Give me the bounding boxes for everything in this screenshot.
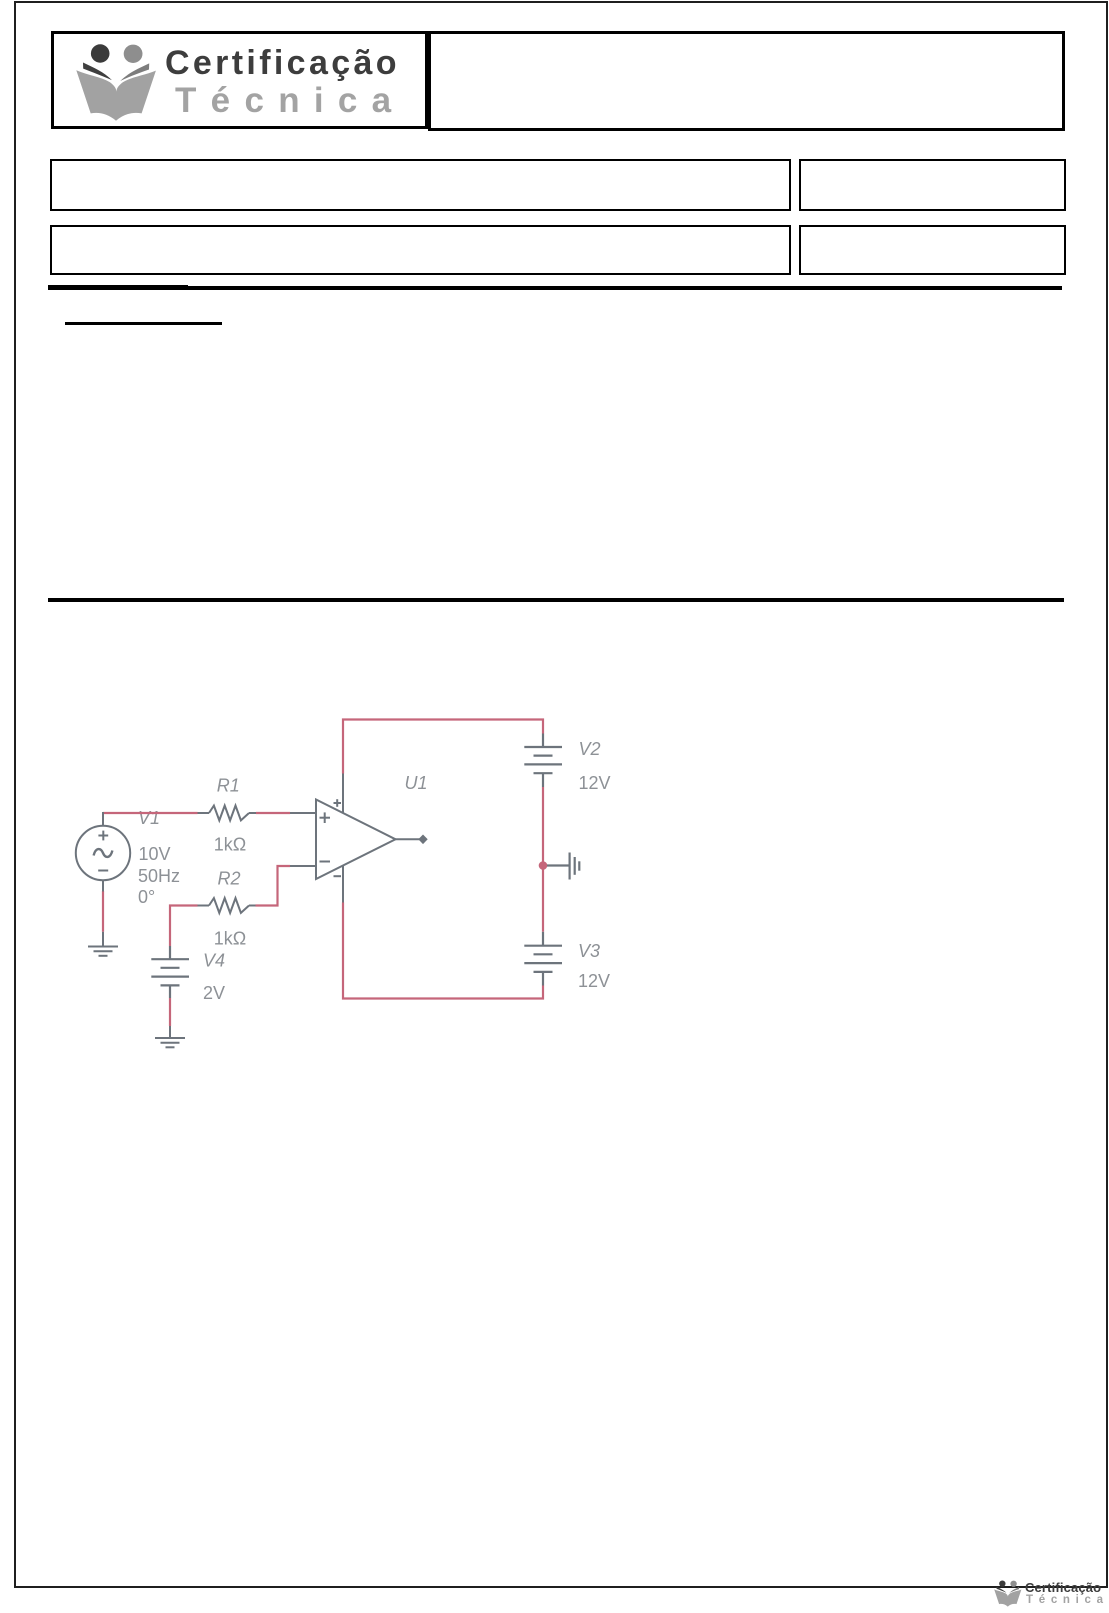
svg-text:R1: R1: [217, 776, 240, 796]
header right box: [428, 31, 1065, 131]
svg-text:V3: V3: [578, 941, 600, 961]
ground (sideways) at junction: [570, 853, 580, 880]
svg-text:50Hz: 50Hz: [138, 866, 180, 886]
wire: V1 bottom to ground: [102, 891, 104, 932]
battery V3: [524, 932, 562, 986]
thick rule 1: [48, 286, 1062, 291]
svg-text:V1: V1: [138, 808, 160, 828]
row2 right box: [799, 225, 1066, 275]
voltage source V1: [76, 812, 130, 892]
labels: [138, 739, 611, 1003]
footer logo text: [1025, 1581, 1101, 1594]
header logo mark: [70, 40, 162, 126]
wire: R2 to op-amp inverting input: [256, 866, 291, 906]
svg-text:V2: V2: [579, 739, 601, 759]
svg-text:0°: 0°: [138, 887, 155, 907]
row1 left box: [50, 159, 791, 211]
svg-text:12V: 12V: [579, 773, 611, 793]
svg-text:U1: U1: [405, 773, 428, 793]
row1 right box: [799, 159, 1066, 211]
junction node: [539, 861, 548, 870]
wire: R1 to op-amp: [256, 812, 290, 814]
svg-text:12V: 12V: [578, 971, 610, 991]
row2 left box: [50, 225, 791, 275]
wire: bottom rail V-: [343, 903, 543, 999]
wire: V1 to R1: [103, 812, 198, 814]
wire: V2 to junction to V3: [542, 787, 544, 932]
footer logo mark: [992, 1579, 1024, 1608]
wire: junction to right ground: [547, 864, 569, 866]
short underline: [65, 322, 222, 325]
ground below V4: [155, 1026, 185, 1047]
op-amp U1: [290, 774, 428, 903]
svg-text:R2: R2: [218, 869, 241, 889]
resistor R1: [198, 806, 257, 821]
wire: V4 to R2: [170, 906, 198, 947]
svg-text:V4: V4: [203, 951, 225, 971]
thick rule 2: [48, 598, 1064, 602]
header logo box: [51, 31, 428, 129]
svg-text:1kΩ: 1kΩ: [214, 929, 246, 949]
ground below V1: [88, 932, 118, 956]
battery V2: [524, 734, 562, 788]
wire: V4 bottom to ground: [169, 998, 171, 1026]
battery V4: [151, 946, 189, 998]
svg-text:10V: 10V: [139, 844, 171, 864]
svg-text:1kΩ: 1kΩ: [214, 835, 246, 855]
header logo text: [165, 46, 400, 80]
wire: top rail V+: [343, 720, 543, 774]
svg-text:2V: 2V: [203, 983, 225, 1003]
resistor R2: [198, 898, 256, 913]
